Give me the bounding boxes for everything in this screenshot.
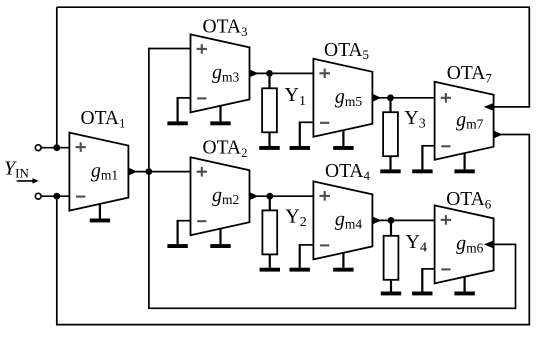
ground OTA6 - input	[412, 268, 435, 295]
wire left upper vertical	[56, 7, 58, 148]
ground OTA1 bottom	[90, 204, 110, 223]
ground OTA3 - input	[167, 97, 190, 125]
node Y1 junction	[266, 70, 273, 77]
output arrow OTA1	[128, 167, 137, 175]
ground OTA4 - input	[290, 244, 314, 272]
node Y4 junction	[388, 217, 395, 224]
wire inner right vertical	[515, 244, 517, 309]
ground OTA7 bottom	[454, 153, 474, 173]
svg-text:OTA5: OTA5	[324, 40, 369, 62]
output arrow OTA7 non-inverting (bottom)	[493, 130, 502, 138]
wire OTA6 output	[494, 243, 517, 245]
op-amp OTA7 (gm7, dual output)	[435, 82, 494, 160]
wire OTA5 output to OTA7 + input	[372, 97, 434, 99]
wire OTA3 + input	[148, 48, 190, 50]
wire OTA4 output to OTA6 + input	[372, 219, 434, 221]
wire bottom feedback (OTA7 output to OTA1 - input)	[56, 324, 529, 326]
ground OTA5 bottom	[333, 130, 353, 150]
wire OTA7 bottom output	[494, 134, 531, 136]
output arrow OTA4	[372, 216, 381, 224]
node OTA1 - input junction	[53, 193, 60, 200]
ground OTA5 - input	[290, 121, 314, 149]
node Y2 junction	[266, 193, 273, 200]
wire right lower vertical	[528, 135, 530, 326]
input terminal - (open circle)	[35, 193, 41, 199]
ground OTA4 bottom	[333, 253, 353, 272]
op-amp OTA4 (gm4)	[313, 181, 372, 259]
node A (OTA1 output junction)	[146, 168, 153, 175]
input arrow	[17, 178, 39, 183]
wire OTA1 output to OTA2 + input	[128, 171, 190, 173]
node OTA1 + input junction	[53, 144, 60, 151]
svg-text:OTA3: OTA3	[203, 17, 248, 39]
wire inner left vertical (node A to OTA3 + and inner bottom)	[148, 49, 150, 309]
output arrow OTA7 inverting (top)	[484, 103, 494, 111]
op-amp OTA5 (gm5)	[313, 59, 372, 137]
op-amp OTA6 (gm6, inverting output)	[435, 205, 494, 283]
op-amp OTA1 (gm1)	[69, 133, 128, 211]
wire OTA3 output to OTA5 + input	[250, 72, 314, 74]
output arrow OTA2	[249, 192, 258, 200]
op-amp OTA2 (gm2)	[191, 157, 250, 235]
svg-text:OTA2: OTA2	[203, 137, 248, 159]
wire OTA2 output to OTA4 + input	[250, 195, 314, 197]
wire OTA7 top output	[494, 106, 531, 108]
ground OTA3 bottom	[210, 106, 230, 125]
wire inner bottom (OTA6 output feedback)	[148, 307, 515, 309]
node Y3 junction	[387, 94, 394, 101]
wire top feedback (OTA7 inverting output to OTA1 + input)	[57, 6, 530, 8]
ground OTA7 - input	[412, 145, 434, 173]
impedance Y4	[381, 220, 401, 295]
svg-text:OTA1: OTA1	[81, 108, 126, 130]
wire OTA1 + input	[41, 147, 69, 149]
impedance Y1	[259, 73, 279, 149]
wire left lower vertical	[56, 196, 58, 324]
output arrow OTA5	[372, 94, 381, 102]
wire right upper vertical	[528, 6, 530, 107]
ground OTA2 - input	[167, 220, 190, 248]
output arrow OTA3	[249, 69, 258, 77]
impedance Y3	[380, 98, 400, 173]
input terminal + (open circle)	[35, 145, 41, 151]
output arrow OTA6 inverting	[484, 240, 494, 248]
ground OTA6 bottom	[454, 277, 474, 296]
ground OTA2 bottom	[210, 229, 230, 248]
op-amp OTA3 (gm3)	[191, 34, 250, 112]
impedance Y2	[260, 196, 280, 271]
wire OTA1 - input	[41, 195, 69, 197]
